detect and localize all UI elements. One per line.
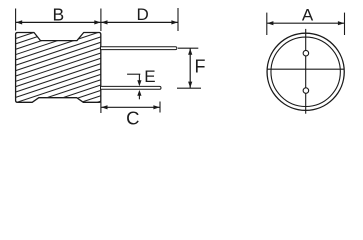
dimension F down arrow xyxy=(188,82,192,88)
dimension A right arrow xyxy=(338,21,344,25)
svg-text:F: F xyxy=(195,56,206,76)
upper lead xyxy=(101,47,177,50)
svg-text:B: B xyxy=(52,4,64,24)
extension line left of B xyxy=(15,9,17,31)
dimension F up arrow xyxy=(188,49,192,55)
top view outer circle xyxy=(267,33,344,110)
extension line top of F xyxy=(178,47,198,49)
extension line between B and D xyxy=(100,9,102,32)
dimension E up arrow xyxy=(137,90,141,96)
extension line right of A xyxy=(344,13,346,35)
dimension E leader line xyxy=(127,73,140,75)
horizontal pitch line xyxy=(267,68,344,70)
dimension D left arrow xyxy=(101,20,107,24)
svg-text:D: D xyxy=(137,5,149,24)
dimension C line xyxy=(101,106,160,108)
dimension E lower stem xyxy=(138,94,140,99)
dimension D line xyxy=(101,21,178,23)
lower lead hole xyxy=(303,88,309,94)
extension line right of D xyxy=(177,8,179,31)
dimension E down arrow xyxy=(137,80,141,86)
svg-text:A: A xyxy=(302,5,314,24)
extension line left of C xyxy=(100,102,102,114)
dimension F line xyxy=(189,48,191,88)
lower lead xyxy=(101,86,162,89)
body hatching xyxy=(15,0,102,130)
extension line right of C xyxy=(159,102,161,113)
extension line bottom of F xyxy=(177,87,201,89)
dimension B line xyxy=(16,21,101,23)
dimension B left arrow xyxy=(16,20,22,24)
dimension A left arrow xyxy=(267,21,273,25)
dimension A line xyxy=(267,22,345,24)
vertical centerline xyxy=(305,29,307,114)
svg-text:C: C xyxy=(126,107,139,128)
top view inner circle xyxy=(271,37,340,106)
dimension D right arrow xyxy=(171,20,177,24)
upper lead hole xyxy=(303,50,309,56)
dimension B right arrow xyxy=(94,20,100,24)
dimension C right arrow xyxy=(153,105,159,109)
inductor body outline (side view, drum core) xyxy=(16,33,101,103)
svg-text:E: E xyxy=(144,67,155,86)
extension line left of A xyxy=(266,13,268,35)
dimension C left arrow xyxy=(101,105,107,109)
dimension E upper stem xyxy=(138,74,140,82)
